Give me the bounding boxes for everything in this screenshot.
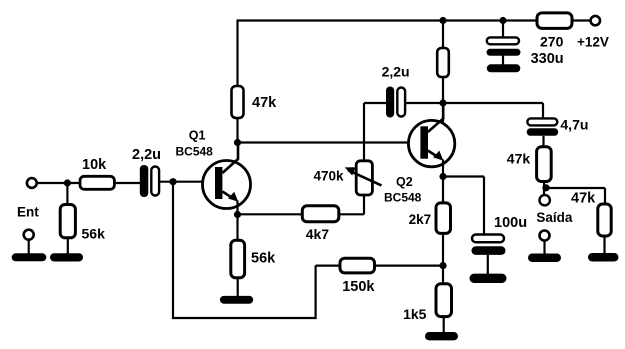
svg-text:+12V: +12V [577,34,609,49]
svg-text:56k: 56k [82,226,106,242]
svg-text:47k: 47k [252,95,277,111]
svg-text:4k7: 4k7 [306,226,330,242]
svg-text:4,7u: 4,7u [560,117,588,133]
svg-text:Q2: Q2 [396,175,413,189]
svg-text:1k5: 1k5 [403,306,427,322]
svg-text:2k7: 2k7 [409,212,432,227]
svg-text:BC548: BC548 [176,145,214,159]
svg-text:56k: 56k [251,251,276,267]
svg-text:2,2u: 2,2u [132,147,161,163]
svg-text:2,2u: 2,2u [382,64,410,80]
svg-text:10k: 10k [82,157,107,173]
svg-text:Ent: Ent [17,205,39,220]
svg-text:150k: 150k [342,279,375,295]
svg-text:270: 270 [540,33,564,49]
svg-text:Saída: Saída [536,210,573,225]
svg-text:BC548: BC548 [384,191,422,205]
svg-text:47k: 47k [507,151,531,167]
svg-text:Q1: Q1 [189,129,206,143]
svg-text:330u: 330u [531,51,564,67]
svg-text:470k: 470k [314,169,345,184]
svg-text:47k: 47k [571,191,596,207]
svg-text:100u: 100u [494,215,527,231]
